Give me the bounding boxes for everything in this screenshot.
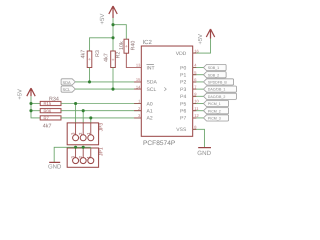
svg-text:DAC/DB_2: DAC/DB_2 xyxy=(208,95,226,99)
wire +5V feed down xyxy=(112,18,114,38)
net flag SDA xyxy=(61,79,75,85)
net flag P5 PICM_1 xyxy=(203,100,228,106)
svg-text:PICM_2: PICM_2 xyxy=(208,109,221,113)
svg-text:DAC/DB_1: DAC/DB_1 xyxy=(208,88,226,92)
junction dot SDA/R3 xyxy=(88,80,91,83)
net flag P6 PICM_2 xyxy=(203,108,228,114)
wires P0-P7 to flags xyxy=(193,68,204,118)
svg-text:P2: P2 xyxy=(180,80,186,86)
net flag P1 SDB_2 xyxy=(204,72,227,78)
junction dot feed A1 xyxy=(29,109,32,112)
svg-text:SCL: SCL xyxy=(62,87,71,92)
svg-text:R40: R40 xyxy=(131,41,137,51)
wire VDD to +5V xyxy=(193,39,211,54)
svg-text:13: 13 xyxy=(136,63,141,68)
pin numbers right xyxy=(194,48,199,129)
svg-text:SDA: SDA xyxy=(63,80,72,85)
svg-text:R3: R3 xyxy=(95,50,101,57)
wire JP1 ground bus xyxy=(54,147,91,162)
svg-text:GND: GND xyxy=(197,150,211,157)
svg-text:P5: P5 xyxy=(180,101,186,107)
resistor R2 xyxy=(111,51,116,68)
pin stubs right (red) xyxy=(193,53,197,129)
svg-text:IC2: IC2 xyxy=(143,39,153,46)
ground GND left xyxy=(49,161,60,163)
wire R40 bottom to INT pin xyxy=(126,53,141,67)
svg-text:16: 16 xyxy=(194,48,199,53)
pin numbers left xyxy=(136,63,141,118)
svg-text:R2: R2 xyxy=(116,52,122,59)
wire R2 top lead xyxy=(112,38,114,51)
pin stubs left (red) xyxy=(134,82,141,118)
svg-text:10k: 10k xyxy=(119,41,125,50)
svg-text:JP1: JP1 xyxy=(99,147,105,156)
wire +5V left feed xyxy=(31,96,40,118)
ground GND right xyxy=(198,147,211,149)
resistor origin crosses xyxy=(88,45,127,61)
svg-text:4k7: 4k7 xyxy=(43,123,52,129)
svg-text:P3: P3 xyxy=(180,87,186,93)
svg-text:VSS: VSS xyxy=(176,127,187,133)
wire drop JP3 pin1 xyxy=(90,118,92,123)
pin names P0-P7 xyxy=(180,65,186,121)
junction dot SCL/R2 xyxy=(111,88,114,91)
net flag P2 SPDDFB_B xyxy=(204,79,234,85)
svg-text:+5V: +5V xyxy=(198,34,204,45)
svg-text:4k7: 4k7 xyxy=(104,53,110,62)
junction dot feed/R40 branch xyxy=(111,23,114,26)
svg-text:A0: A0 xyxy=(146,101,152,107)
svg-text:GND: GND xyxy=(48,164,62,170)
net flag P3 DAC/DB_1 xyxy=(203,86,236,92)
wire top rail to R3 xyxy=(90,38,114,51)
connector JP1 xyxy=(67,148,98,167)
wire stub A0 row xyxy=(31,102,40,104)
svg-text:A1: A1 xyxy=(146,109,152,115)
svg-text:P0: P0 xyxy=(180,65,186,71)
svg-text:15: 15 xyxy=(136,77,141,82)
junction dot A2/JP3 xyxy=(89,116,92,119)
svg-text:14: 14 xyxy=(136,84,141,89)
wire VSS to GND xyxy=(193,129,205,147)
wire SDA net xyxy=(75,81,141,83)
resistor R34b xyxy=(40,109,61,113)
svg-text:PCF8574P: PCF8574P xyxy=(143,140,176,147)
svg-text:A2: A2 xyxy=(146,116,152,122)
net flag P4 DAC/DB_2 xyxy=(203,93,236,99)
junction dot rail/R2 xyxy=(111,36,114,39)
svg-text:+5V: +5V xyxy=(99,14,106,25)
wire stub A1 row xyxy=(31,110,40,112)
resistor R34a xyxy=(40,101,61,105)
svg-text:10: 10 xyxy=(194,99,199,104)
svg-text:PICM_1: PICM_1 xyxy=(208,102,221,106)
wire branch to R40 xyxy=(113,25,126,40)
net flag SCL xyxy=(61,86,75,92)
wire A0 row xyxy=(61,102,141,104)
junction dot A1/JP3 xyxy=(82,109,85,112)
svg-text:P4: P4 xyxy=(180,94,186,100)
svg-text:VDD: VDD xyxy=(176,51,187,57)
IC IC2 PCF8574P box xyxy=(141,46,192,136)
wire SCL net xyxy=(75,88,141,90)
net flag P0 SDB_1 xyxy=(204,64,227,70)
svg-text:SDB_2: SDB_2 xyxy=(208,73,219,77)
junction dots JP1 bus xyxy=(74,146,77,149)
svg-text:+5V: +5V xyxy=(17,89,23,100)
wire A1 row xyxy=(61,110,141,112)
wire drop JP3 pin2 xyxy=(82,111,84,123)
supply +5V right arrow xyxy=(206,29,214,39)
svg-text:R15: R15 xyxy=(43,101,51,106)
wire R2 bottom to SCL xyxy=(112,67,114,89)
svg-text:SDB_1: SDB_1 xyxy=(208,66,219,70)
wire JP1 pin stubs xyxy=(76,147,91,148)
svg-text:PICM_3: PICM_3 xyxy=(208,117,221,121)
svg-text:SDA: SDA xyxy=(146,80,157,86)
supply +5V top arrow xyxy=(109,6,117,18)
svg-text:INT: INT xyxy=(147,65,155,71)
junction dot A0/JP3 xyxy=(74,102,77,105)
svg-text:4k7: 4k7 xyxy=(81,50,87,59)
svg-text:JP3: JP3 xyxy=(99,123,105,132)
resistor R40 xyxy=(124,39,129,53)
resistor R34c xyxy=(40,116,61,120)
junction dot feed A0 xyxy=(29,102,32,105)
svg-text:P6: P6 xyxy=(180,109,186,115)
connector JP3 xyxy=(67,123,98,145)
resistor R3 xyxy=(87,51,92,68)
svg-text:P7: P7 xyxy=(180,116,186,122)
svg-text:SPDDFB_B: SPDDFB_B xyxy=(208,81,228,85)
svg-text:R06: R06 xyxy=(43,108,51,113)
wire R3 bottom to SDA xyxy=(89,67,91,81)
svg-text:R7: R7 xyxy=(43,116,49,121)
wire A2 row xyxy=(61,117,141,119)
svg-text:SCL: SCL xyxy=(146,87,156,93)
net flag P7 PICM_3 xyxy=(203,115,228,121)
wire drop JP3 pin3 xyxy=(75,103,77,122)
svg-text:12: 12 xyxy=(194,113,199,118)
svg-text:P1: P1 xyxy=(180,73,186,79)
supply +5V left arrow xyxy=(27,88,35,96)
